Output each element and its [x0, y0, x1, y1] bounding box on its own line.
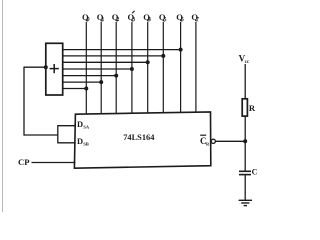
- resistor R: [242, 99, 247, 116]
- wire feedback right: [24, 134, 58, 136]
- pin label CR with overbar: [200, 135, 210, 146]
- wire capacitor to ground: [244, 175, 246, 200]
- junction dot Q4: [146, 60, 150, 64]
- scan edge artifact: [2, 0, 4, 212]
- wire block to Q0: [63, 88, 87, 90]
- junction dot Q3: [130, 67, 134, 71]
- wire block to Q3: [63, 68, 132, 70]
- svg-text:CP: CP: [18, 157, 29, 167]
- wire tie bar DSA-DSB: [57, 125, 59, 143]
- svg-text:3: 3: [132, 17, 135, 23]
- svg-text:5: 5: [164, 17, 167, 23]
- junction dot Q6: [179, 48, 183, 52]
- wire block to Q4: [63, 61, 148, 63]
- node Q2 label: [112, 12, 120, 23]
- node Q3 label: [128, 11, 136, 23]
- node Q7 label: [191, 12, 199, 23]
- wire node to capacitor: [244, 141, 246, 171]
- svg-text:6: 6: [181, 17, 184, 23]
- wire CR to RC node: [215, 140, 245, 142]
- wire block to Q1: [63, 81, 101, 83]
- junction dot Q0: [84, 87, 88, 91]
- wire Q6 vertical: [180, 22, 182, 113]
- wire Q1 vertical: [100, 22, 102, 114]
- svg-text:R: R: [249, 103, 256, 113]
- svg-text:C: C: [252, 168, 258, 177]
- junction dot Q5: [161, 54, 165, 58]
- wire to pin DSB: [58, 142, 76, 144]
- wire Q7 vertical: [195, 22, 197, 113]
- capacitor C: [239, 171, 251, 174]
- junction dot Q1: [99, 80, 103, 84]
- svg-text:74LS164: 74LS164: [123, 133, 155, 142]
- svg-text:2: 2: [116, 17, 119, 23]
- junction dot RC node: [243, 139, 247, 143]
- node Q6 label: [176, 12, 184, 23]
- svg-text:0: 0: [87, 17, 90, 23]
- wire Q2 vertical: [115, 22, 117, 114]
- ground: [239, 200, 252, 205]
- wire Q4 vertical: [147, 22, 149, 114]
- node Q5 label: [159, 12, 167, 23]
- wire feedback left: [24, 66, 46, 68]
- pin label DSB: [77, 137, 89, 146]
- inversion bubble on CR pin: [211, 139, 215, 143]
- wire block to Q5: [63, 55, 164, 57]
- pin label DSA: [77, 120, 90, 129]
- wire Q0 vertical: [85, 22, 87, 115]
- svg-text:D: D: [77, 120, 83, 129]
- wire Q3 vertical: [131, 22, 133, 114]
- wire block to Q6: [63, 49, 181, 51]
- wire block to Q2: [63, 75, 116, 77]
- wire feedback down: [23, 67, 25, 136]
- wire to pin DSA: [58, 125, 76, 127]
- junction dot Q2: [114, 74, 118, 78]
- wire Q5 vertical: [162, 22, 164, 113]
- svg-text:SA: SA: [83, 124, 90, 129]
- shift register U1 74LS164: [74, 112, 210, 168]
- node Q0 label: [82, 12, 90, 23]
- node Q1 label: [97, 12, 105, 23]
- svg-text:D: D: [77, 137, 83, 146]
- node Q4 label: [143, 12, 151, 23]
- junction dot block input: [44, 65, 48, 69]
- svg-text:1: 1: [101, 17, 104, 23]
- svg-text:R: R: [206, 142, 210, 147]
- wire resistor to node: [244, 116, 246, 141]
- wire Vcc to resistor: [244, 64, 246, 99]
- svg-text:4: 4: [148, 17, 151, 23]
- wire CP input: [32, 162, 76, 164]
- indicator block with plus sign: [46, 43, 63, 95]
- label Vcc: [239, 54, 250, 66]
- svg-text:SB: SB: [83, 141, 89, 146]
